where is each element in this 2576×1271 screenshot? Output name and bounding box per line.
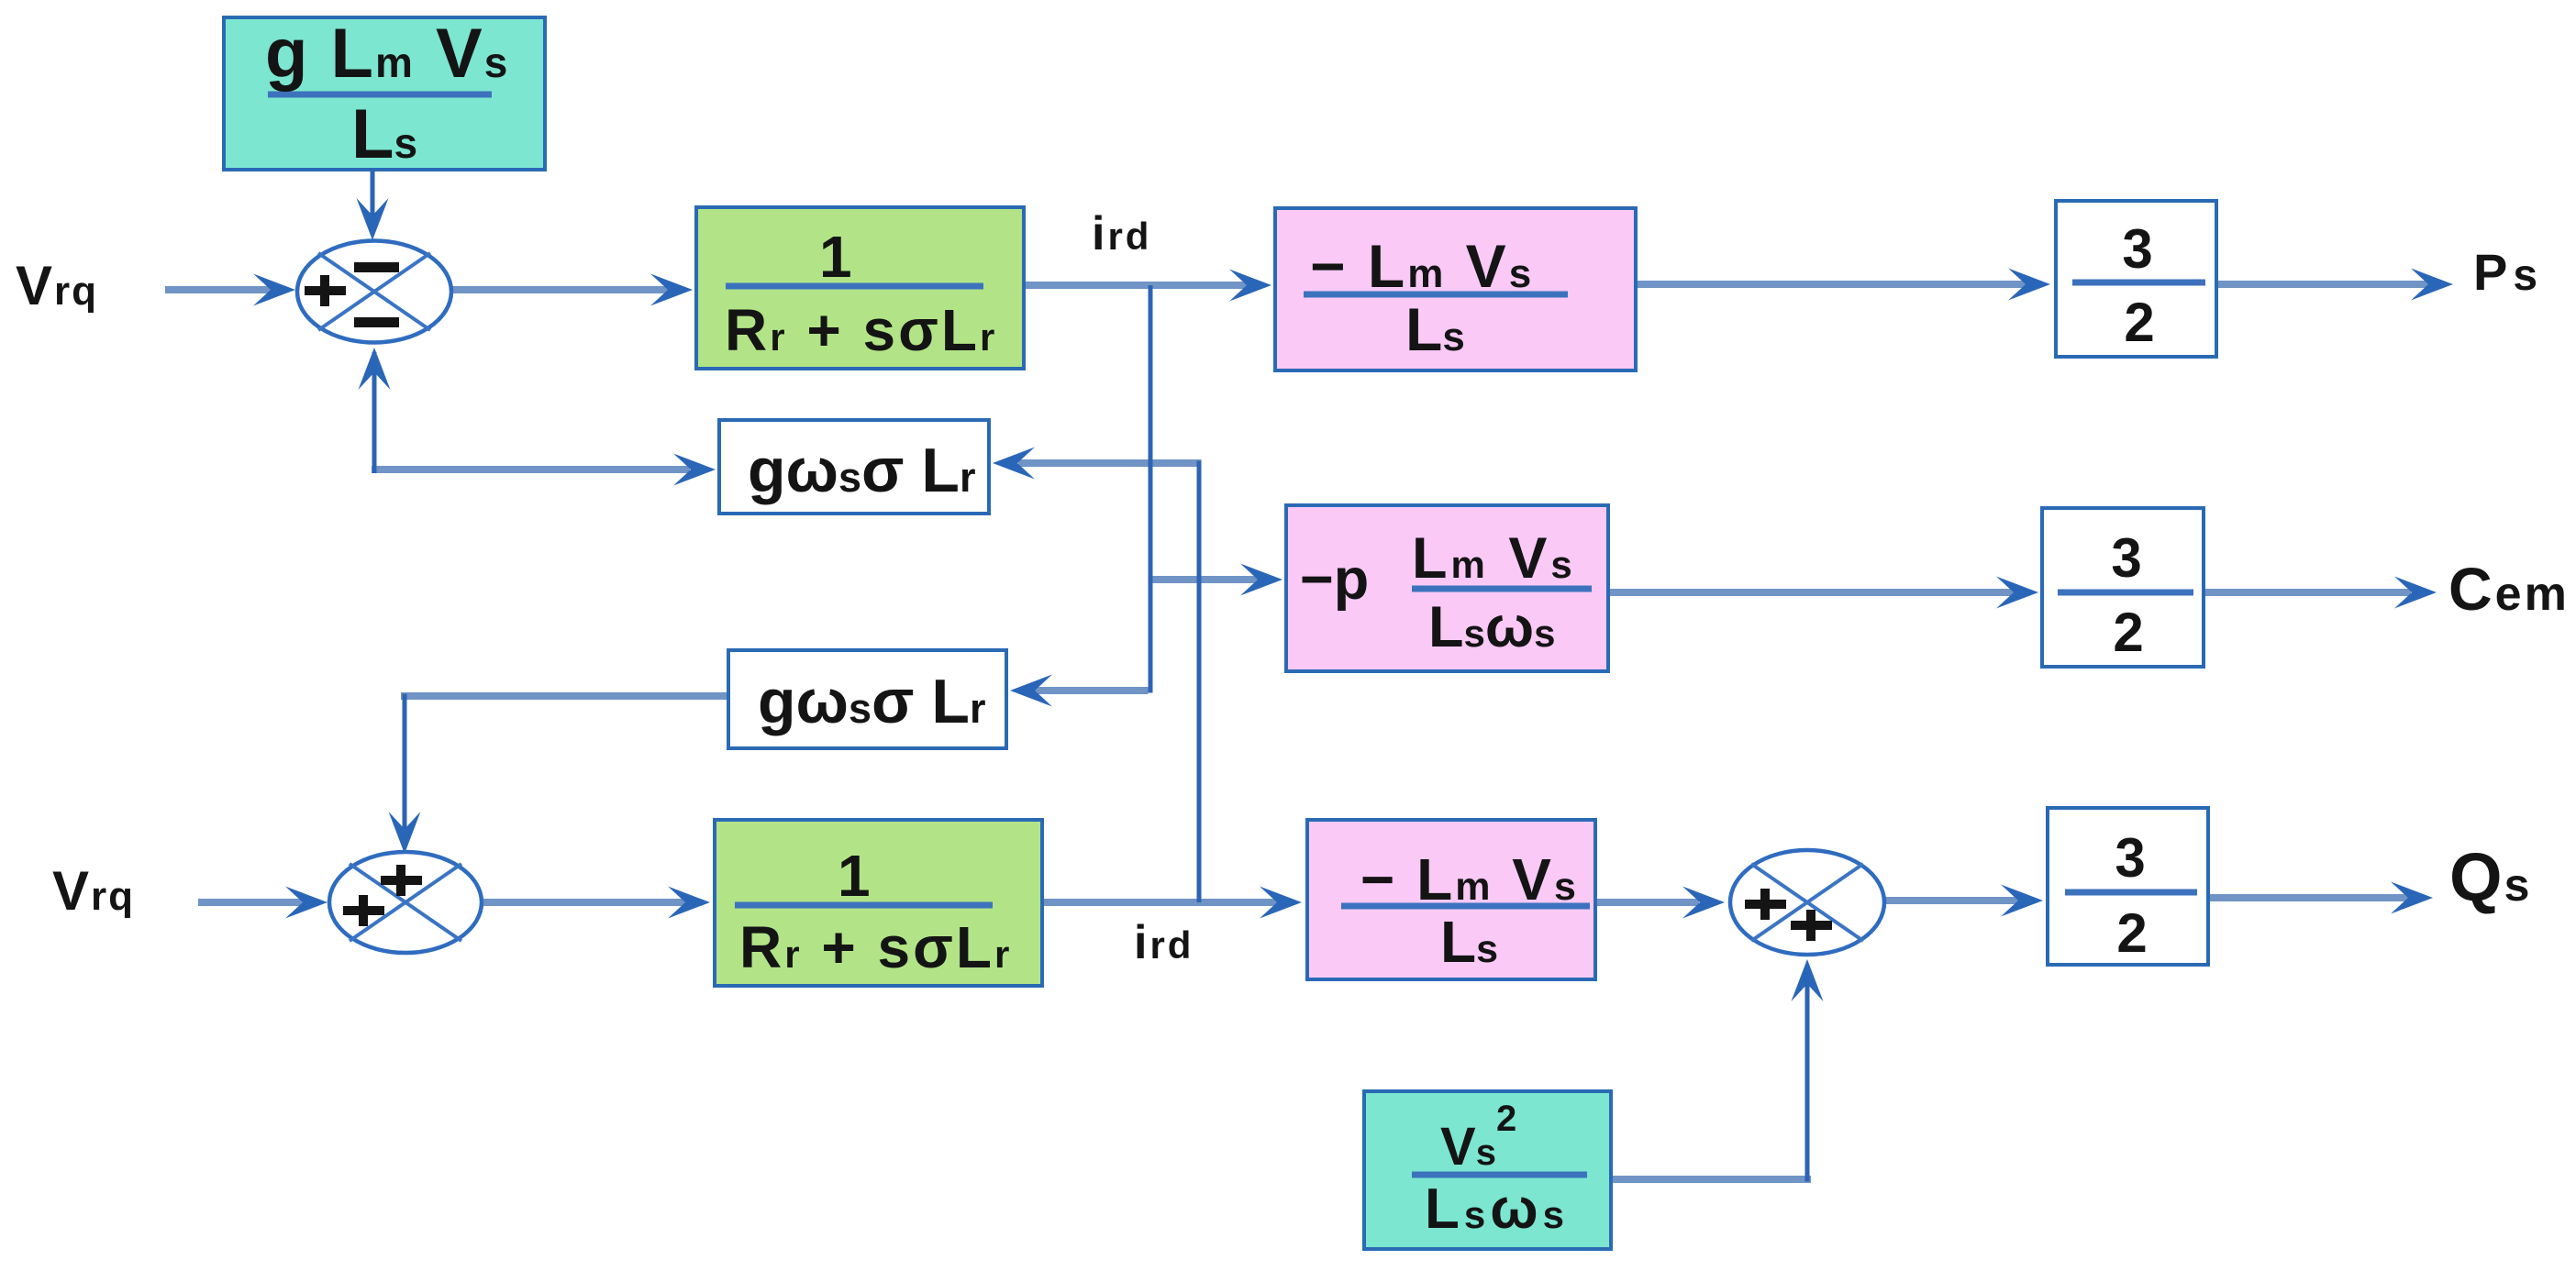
- svg-text:1: 1: [838, 843, 871, 909]
- svg-text:ird: ird: [1092, 207, 1151, 260]
- svg-text:2: 2: [2124, 292, 2154, 353]
- svg-text:2: 2: [2116, 902, 2147, 964]
- svg-text:Rr + sσLr: Rr + sσLr: [725, 297, 997, 363]
- svg-text:3: 3: [2111, 527, 2141, 589]
- svg-text:3: 3: [2115, 827, 2145, 889]
- svg-text:gωsσ Lr: gωsσ Lr: [758, 667, 985, 736]
- svg-text:Rr + sσLr: Rr + sσLr: [739, 914, 1012, 980]
- svg-text:3: 3: [2122, 218, 2152, 280]
- svg-text:ird: ird: [1134, 916, 1194, 969]
- svg-text:Ps: Ps: [2473, 243, 2539, 301]
- svg-text:−p: −p: [1300, 547, 1369, 612]
- svg-text:2: 2: [2113, 602, 2143, 663]
- svg-text:1: 1: [819, 224, 852, 290]
- svg-text:gωsσ Lr: gωsσ Lr: [748, 436, 975, 505]
